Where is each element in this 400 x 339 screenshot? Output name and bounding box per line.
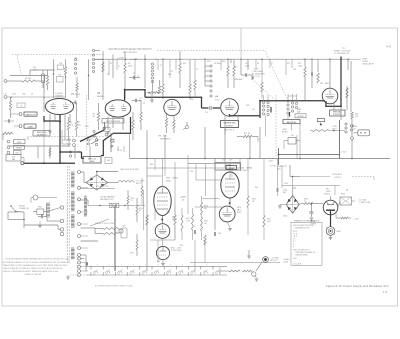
svg-text:R63: R63 xyxy=(255,187,258,189)
svg-text:(SEE PARTS LIST): (SEE PARTS LIST) xyxy=(295,227,310,230)
dashed linkage h xyxy=(30,136,105,138)
switch contacts I xyxy=(68,127,106,157)
label C15 xyxy=(245,63,249,68)
svg-text:(+225V): (+225V) xyxy=(334,177,341,179)
svg-text:R17 1M: R17 1M xyxy=(244,133,251,135)
svg-text:1: 1 xyxy=(204,67,205,69)
svg-text:63: 63 xyxy=(96,270,98,272)
thick V5 cathode xyxy=(325,101,341,106)
svg-text:63: 63 xyxy=(133,270,135,272)
svg-text:2N1212: 2N1212 xyxy=(324,194,330,196)
resistor R11 xyxy=(179,51,181,88)
svg-text:HORIZ: HORIZ xyxy=(16,148,21,150)
resistor R7 xyxy=(75,103,77,137)
svg-text:R2: R2 xyxy=(110,63,112,65)
svg-text:SW5: SW5 xyxy=(85,126,89,128)
switch label MULTIPLICATION SELECTOR SWITCH xyxy=(108,48,151,54)
svg-text:L601 TO HTR OF V822: L601 TO HTR OF V822 xyxy=(120,169,139,171)
rail y158.5 xyxy=(130,133,391,158)
svg-text:3: 3 xyxy=(97,264,98,266)
wire xyxy=(62,130,98,152)
ground V3 xyxy=(150,94,154,103)
resistor R601 xyxy=(95,228,118,230)
svg-text:MAG 1-2X: MAG 1-2X xyxy=(88,157,97,160)
transformer core dashed xyxy=(67,166,69,262)
label panel xyxy=(310,220,317,225)
tube V13 xyxy=(219,206,235,222)
svg-text:D601: D601 xyxy=(283,216,287,218)
resistor R12 xyxy=(189,60,191,99)
rail y146 xyxy=(8,145,70,147)
wire xyxy=(10,75,48,77)
label to rect xyxy=(136,181,145,186)
label D602 xyxy=(283,190,287,195)
svg-text:OHMS/VOLT METER.: OHMS/VOLT METER. xyxy=(24,274,42,276)
wire xyxy=(111,133,124,152)
svg-text:(AC POS 1): (AC POS 1) xyxy=(225,129,235,132)
tube V2 xyxy=(105,100,131,117)
label xyxy=(107,63,186,76)
svg-text:5X MULT: 5X MULT xyxy=(214,63,223,65)
svg-text:+150V: +150V xyxy=(332,126,338,128)
tube V12 xyxy=(221,172,239,198)
ground xyxy=(38,221,42,228)
bridge rectifier D601 xyxy=(86,175,108,190)
resistor V3 top xyxy=(148,92,159,94)
wire xyxy=(346,86,348,110)
ground lower mid xyxy=(247,250,251,258)
svg-text:5.6: 5.6 xyxy=(304,201,306,203)
resistor V3 top2 xyxy=(158,80,160,94)
svg-text:47: 47 xyxy=(271,63,273,65)
wire xyxy=(43,98,45,164)
resistor R5 xyxy=(3,132,14,134)
svg-text:C2: C2 xyxy=(118,66,120,68)
contact sw arm xyxy=(105,133,113,147)
label +225V xyxy=(332,173,342,179)
tiny labels mid xyxy=(143,93,255,115)
junction dots thick path xyxy=(59,89,342,123)
dashed wafer line xyxy=(275,95,277,158)
label box normal xyxy=(295,114,306,118)
resistor R45 xyxy=(351,112,353,125)
svg-text:OSCILLATOR: OSCILLATOR xyxy=(362,63,374,66)
wire t200 xyxy=(81,200,89,206)
label R1 xyxy=(25,78,31,80)
svg-text:F600: F600 xyxy=(341,194,345,196)
resistor R602 xyxy=(95,233,118,235)
svg-text:B600: B600 xyxy=(337,231,341,233)
svg-text:R615: R615 xyxy=(131,198,135,200)
label +20V xyxy=(352,218,359,220)
svg-text:8-45: 8-45 xyxy=(386,45,392,49)
wire xyxy=(47,208,61,222)
svg-text:DC SHIFT: DC SHIFT xyxy=(55,93,63,95)
svg-text:63: 63 xyxy=(121,270,123,272)
label V10 xyxy=(166,178,178,183)
svg-text:LINE VOLTAGE AT 117V AND ALL O: LINE VOLTAGE AT 117V AND ALL OTHER CONTR… xyxy=(3,267,63,270)
svg-text:C12: C12 xyxy=(234,67,237,69)
svg-text:ALL READINGS ARE IN VOLTS DC U: ALL READINGS ARE IN VOLTS DC UNLESS OTHE… xyxy=(3,261,71,264)
thick wire xyxy=(44,116,59,122)
tube V4 xyxy=(221,99,239,117)
tube V14 regulator xyxy=(156,246,169,259)
test point xyxy=(65,126,98,146)
switch wafer contacts A xyxy=(74,58,76,74)
resistor R16 xyxy=(233,60,235,89)
capacitor C2 xyxy=(4,119,14,123)
resistor R14 xyxy=(140,100,142,130)
svg-text:(SWP AMPL): (SWP AMPL) xyxy=(160,138,171,141)
svg-text:ATTEN: ATTEN xyxy=(282,131,288,134)
svg-text:6DJ8: 6DJ8 xyxy=(76,94,80,96)
label AC POS xyxy=(225,129,235,132)
wire wafer xyxy=(266,114,298,158)
svg-text:C6: C6 xyxy=(143,103,145,105)
figure caption xyxy=(326,284,389,288)
wire xyxy=(24,225,60,230)
connector contact xyxy=(351,125,354,128)
resistor mid50 xyxy=(49,148,51,156)
svg-text:R60: R60 xyxy=(150,164,153,166)
capacitor C1B box xyxy=(57,75,64,83)
label V13 xyxy=(237,207,242,214)
label V2 xyxy=(97,91,104,98)
tiny labels upper xyxy=(110,61,297,78)
resistor R3 xyxy=(46,70,48,90)
resistor R621 xyxy=(263,159,272,241)
svg-text:+500V: +500V xyxy=(268,161,274,163)
svg-text:R65: R65 xyxy=(180,245,183,247)
svg-text:POWER ON: POWER ON xyxy=(19,208,30,210)
thick signal path V1 cathode xyxy=(59,114,61,163)
svg-text:MULTIPLICATION SELECTOR SWITCH: MULTIPLICATION SELECTOR SWITCH xyxy=(108,48,151,51)
resistor R22 xyxy=(304,67,306,100)
resistor R4 xyxy=(9,98,11,119)
label L601 xyxy=(120,169,139,171)
capacitor box C16 xyxy=(288,135,296,144)
label R40 xyxy=(33,67,38,71)
switch contacts H xyxy=(345,123,353,133)
svg-text:R13: R13 xyxy=(222,61,225,63)
svg-text:C40: C40 xyxy=(157,261,160,263)
wire V5 bottom xyxy=(310,103,357,132)
resistor left V10 xyxy=(141,178,143,205)
thick V2 cathode down xyxy=(113,117,132,134)
wire wafer top xyxy=(264,94,297,102)
label box EXT xyxy=(14,151,22,155)
wire xyxy=(16,212,25,229)
svg-text:R619: R619 xyxy=(252,199,256,201)
svg-text:SAWTOOTH: SAWTOOTH xyxy=(26,113,36,116)
wire xyxy=(81,172,87,183)
lower tiny labels xyxy=(150,164,258,247)
resistor V3 k2 xyxy=(173,115,175,134)
label V5 xyxy=(320,82,329,85)
capacitor C31 xyxy=(194,230,195,234)
label cluster xyxy=(130,59,158,61)
svg-text:63: 63 xyxy=(145,270,147,272)
wire top right rail xyxy=(318,59,348,88)
svg-text:CHASSIS REAR: CHASSIS REAR xyxy=(295,254,308,257)
labels lower mid xyxy=(157,212,221,263)
label xyxy=(70,122,81,126)
inductor L601 xyxy=(118,181,134,183)
switch contacts F xyxy=(287,100,298,114)
fuse box F600 xyxy=(338,197,355,208)
ground B600 xyxy=(329,235,333,239)
svg-text:T2-1: T2-1 xyxy=(12,156,16,158)
svg-text:R845: R845 xyxy=(353,126,357,128)
resistor R17 xyxy=(237,135,258,142)
svg-text:(LV RECT): (LV RECT) xyxy=(240,170,249,172)
svg-text:22: 22 xyxy=(196,69,198,71)
thick over xyxy=(124,89,145,91)
transformer T601 windings xyxy=(71,172,75,259)
resistor R619 xyxy=(247,159,256,236)
label swp2 xyxy=(282,129,288,134)
thick Q600 emitter xyxy=(330,210,332,227)
svg-text:R621: R621 xyxy=(267,219,271,221)
svg-text:TRANSISTOR IDENTIFICATION: TRANSISTOR IDENTIFICATION xyxy=(294,219,320,222)
resistor R616b xyxy=(181,208,183,240)
fuse F601 xyxy=(33,207,47,215)
svg-text:WAVEFORMS ON THIS DIAGRAM SHOU: WAVEFORMS ON THIS DIAGRAM SHOULD NOT VAR… xyxy=(3,264,68,267)
svg-text:POSITION: POSITION xyxy=(333,114,342,116)
resistor R603 xyxy=(336,217,351,219)
svg-text:2: 2 xyxy=(204,72,205,74)
wire xyxy=(30,70,55,76)
label V14 xyxy=(171,248,182,253)
label heater out xyxy=(270,257,280,263)
label SW601 xyxy=(19,206,30,211)
wire xyxy=(282,165,300,188)
ground C600 xyxy=(310,218,314,220)
thick right xyxy=(145,96,202,98)
wire xyxy=(330,196,332,200)
svg-text:C16: C16 xyxy=(290,135,293,137)
trimmer C18 xyxy=(103,126,110,132)
wire 6.3 crt xyxy=(81,185,116,189)
wire xyxy=(96,171,118,175)
label box mag reg xyxy=(283,120,300,124)
svg-text:HTR CKT: HTR CKT xyxy=(270,260,279,262)
resistor R31 xyxy=(146,215,148,225)
wire xyxy=(351,140,353,159)
label B600 xyxy=(337,231,341,233)
svg-text:C617: C617 xyxy=(222,160,226,162)
heater bus loops xyxy=(70,262,229,276)
svg-text:63: 63 xyxy=(109,270,111,272)
thick V4 out xyxy=(230,114,261,116)
svg-text:3: 3 xyxy=(204,77,205,79)
thick diagonal to switch xyxy=(80,122,105,144)
labels tiny xyxy=(204,67,205,79)
connector J1 box xyxy=(358,130,370,136)
svg-text:R617: R617 xyxy=(130,253,134,255)
wire xyxy=(145,55,153,93)
svg-text:C .01: C .01 xyxy=(3,94,7,96)
svg-text:VERT: VERT xyxy=(17,142,21,144)
label R45 xyxy=(355,114,359,119)
ac receptacle xyxy=(31,195,57,203)
svg-text:Figure 8-13. Power Supply and: Figure 8-13. Power Supply and Modulator … xyxy=(326,284,389,288)
svg-text:4: 4 xyxy=(109,264,110,266)
svg-text:C11: C11 xyxy=(205,112,208,114)
label F600 xyxy=(341,152,349,196)
ground bridge xyxy=(278,205,286,209)
sheet number top right xyxy=(386,45,392,49)
thick V4 up xyxy=(259,101,261,118)
wire xyxy=(8,212,25,220)
wire 115v xyxy=(282,183,340,195)
svg-text:C61: C61 xyxy=(218,233,221,235)
transistor Q600 xyxy=(323,200,338,215)
svg-text:VOLTAGE READINGS WERE OBTAINED: VOLTAGE READINGS WERE OBTAINED WITH CONT… xyxy=(5,258,69,261)
svg-text:C1B: C1B xyxy=(58,75,61,77)
svg-text:50 CL A W: 50 CL A W xyxy=(293,263,301,266)
resistor R15 xyxy=(227,60,229,89)
label box POS xyxy=(6,155,21,162)
label +225V dark xyxy=(180,197,187,202)
svg-text:+225V: +225V xyxy=(180,197,187,199)
svg-text:.05: .05 xyxy=(20,106,22,108)
tube V3 xyxy=(164,99,180,115)
svg-text:4.7: 4.7 xyxy=(139,210,141,212)
wire xyxy=(112,55,114,79)
svg-text:(P INST PWR): (P INST PWR) xyxy=(171,250,182,252)
wire xyxy=(148,159,163,221)
svg-text:63: 63 xyxy=(170,270,172,272)
svg-text:63: 63 xyxy=(157,270,159,272)
label V3 xyxy=(158,136,166,138)
resistor R618b xyxy=(201,196,208,240)
svg-text:OUTPUT: OUTPUT xyxy=(226,126,234,128)
svg-text:R620: R620 xyxy=(204,221,208,223)
svg-text:R616: R616 xyxy=(139,208,143,210)
wire xyxy=(205,60,210,87)
label box GATE OUT xyxy=(215,163,241,171)
switch contacts C xyxy=(151,63,153,83)
label box VERT POS xyxy=(330,110,346,116)
resistor R23 xyxy=(317,73,319,83)
wire xyxy=(81,255,87,271)
labels v12 top xyxy=(222,160,276,168)
label box small xyxy=(105,158,112,164)
input terminal J1 xyxy=(4,80,10,83)
svg-text:6U8: 6U8 xyxy=(297,111,300,113)
switch contacts D xyxy=(210,65,212,97)
dashed linkage diagonal right xyxy=(252,51,287,99)
svg-text:+45 ADJ: +45 ADJ xyxy=(283,258,290,261)
svg-text:8-45: 8-45 xyxy=(383,292,388,294)
dashed wire 225 xyxy=(300,177,374,181)
resistor R34 xyxy=(204,235,206,245)
resistor R13 xyxy=(132,112,134,140)
dark heater feed xyxy=(114,206,116,272)
thick V2 plate up xyxy=(124,90,126,101)
label T601 xyxy=(62,163,67,165)
wire xyxy=(335,211,337,218)
wire long right xyxy=(350,61,352,112)
svg-text:C7: C7 xyxy=(160,65,162,67)
label heaters xyxy=(100,196,115,201)
rotor bar 1 xyxy=(270,107,272,113)
label R22 xyxy=(298,63,303,68)
thick branch to rail xyxy=(60,152,84,158)
svg-text:SEL: SEL xyxy=(326,189,329,191)
ground bus left xyxy=(66,275,70,279)
thick bus bottom xyxy=(21,162,75,165)
svg-text:SW: SW xyxy=(107,160,110,162)
wire xyxy=(304,60,306,68)
svg-text:63: 63 xyxy=(194,270,196,272)
resistor R8 xyxy=(102,62,104,72)
resistor Rh1 xyxy=(127,190,134,210)
svg-text:(DEC): (DEC) xyxy=(332,128,337,130)
svg-text:R10: R10 xyxy=(168,74,171,76)
ground xyxy=(106,126,113,134)
svg-text:6.3V AC HEATERS: 6.3V AC HEATERS xyxy=(100,196,115,199)
svg-text:+225V ADJ: +225V ADJ xyxy=(332,173,342,176)
svg-text:C60: C60 xyxy=(190,171,193,173)
rail 205.5 xyxy=(88,203,145,207)
svg-text:SEL: SEL xyxy=(283,192,286,194)
dashed selector linkage left xyxy=(12,54,104,56)
label V4 xyxy=(215,96,221,102)
capacitor C32 xyxy=(214,232,215,236)
rail pair upper xyxy=(278,120,340,165)
svg-text:R11: R11 xyxy=(183,63,186,65)
label gate out xyxy=(277,165,288,171)
label box VERT INVERTER xyxy=(102,119,124,124)
bridge rectifier D602 xyxy=(286,195,299,213)
svg-text:L1 600: L1 600 xyxy=(341,152,346,154)
note text mult adj xyxy=(252,70,266,78)
svg-text:TO TRIGGER CKT: TO TRIGGER CKT xyxy=(334,53,350,55)
thick down xyxy=(144,90,146,98)
tube V1 xyxy=(45,99,73,115)
label TIME/DIV xyxy=(214,63,223,65)
capacitor C22 xyxy=(312,60,313,89)
svg-text:6DW4: 6DW4 xyxy=(247,167,252,169)
switch wafer contacts B xyxy=(92,49,94,72)
capacitor C600 xyxy=(310,203,314,217)
label box GATE xyxy=(24,124,36,128)
svg-text:.047: .047 xyxy=(229,160,232,162)
label box SAWTOOTH xyxy=(24,112,37,116)
primary winding xyxy=(47,203,51,217)
svg-text:V14: V14 xyxy=(171,248,174,250)
svg-text:C15: C15 xyxy=(139,98,142,100)
dashed selector linkage right xyxy=(157,50,265,52)
label R17 xyxy=(244,133,251,135)
resistor V1 plate xyxy=(76,77,78,98)
rail verticals xyxy=(38,127,260,159)
svg-text:ALL HEATER PINS SHOWN CONNECT: ALL HEATER PINS SHOWN CONNECT 6.3VAC xyxy=(95,285,133,288)
resistor R6 xyxy=(67,117,69,140)
resistor R618a xyxy=(201,202,208,215)
resistor R10 xyxy=(162,60,164,99)
wire xyxy=(293,188,296,195)
resistor V3 k1 xyxy=(165,114,167,133)
svg-text:+GATE: +GATE xyxy=(27,125,33,128)
label under bus xyxy=(95,285,133,288)
label cluster2 xyxy=(222,61,237,69)
dashed wafer v xyxy=(86,95,88,150)
wire xyxy=(161,238,165,265)
wire V2 pins xyxy=(108,117,123,131)
